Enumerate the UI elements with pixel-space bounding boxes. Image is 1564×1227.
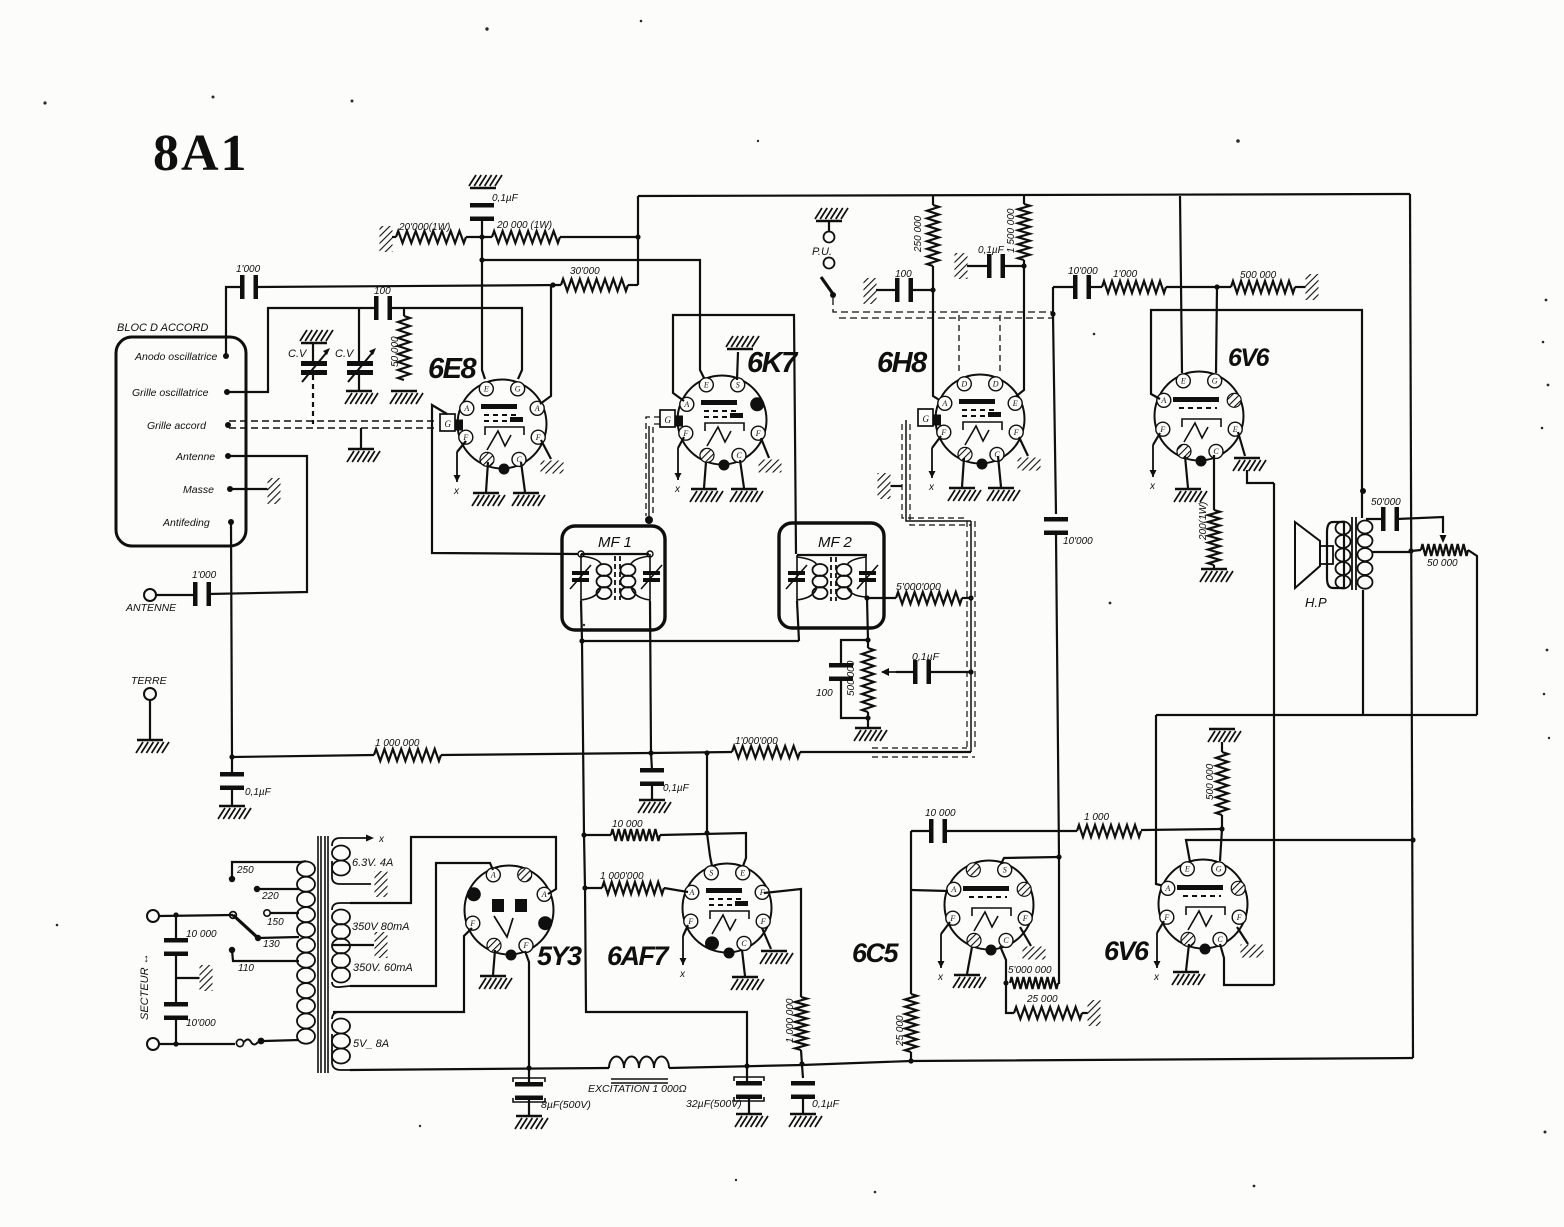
svg-text:S: S — [709, 869, 713, 878]
svg-text:1 000'000: 1 000'000 — [600, 871, 644, 882]
junction OT top — [1360, 488, 1366, 494]
MF1 right trimmer — [641, 565, 662, 589]
terminal secteur top — [147, 910, 159, 922]
MF2 left trimmer — [786, 565, 807, 589]
wire tap 220 — [257, 888, 299, 890]
svg-text:F: F — [940, 428, 946, 437]
wire wiper to 0.1uF — [896, 671, 915, 673]
svg-text:5'000 000: 5'000 000 — [1008, 965, 1052, 976]
svg-text:F: F — [1022, 914, 1028, 923]
svg-text:x: x — [674, 484, 681, 495]
wire secteur top — [159, 915, 233, 916]
ground 6K7 bottom left — [690, 489, 723, 502]
svg-text:5'000'000: 5'000'000 — [896, 581, 941, 593]
tube 6H8 V3 — [918, 375, 1025, 470]
wire grid node to grid pin — [1220, 829, 1222, 861]
svg-text:130: 130 — [263, 939, 280, 950]
svg-text:20 000 (1W): 20 000 (1W) — [496, 220, 552, 231]
capacitor 0.1uF (AF coupling) — [913, 660, 931, 684]
svg-text:5Y3: 5Y3 — [537, 941, 582, 971]
wire grille accord shield a — [229, 420, 438, 422]
junction 1M feed — [582, 885, 587, 890]
junction 6C5 grid tap — [1056, 854, 1061, 859]
svg-text:A: A — [463, 404, 469, 413]
wire R7 to grid node — [1166, 286, 1231, 288]
svg-text:32µF(500V): 32µF(500V) — [686, 1098, 742, 1110]
svg-text:x: x — [928, 482, 935, 493]
capacitor 100 (osc grid) — [374, 296, 392, 320]
svg-text:1'000'000: 1'000'000 — [735, 736, 778, 747]
power transformer primary winding — [232, 861, 315, 1044]
wire filter vertical — [175, 915, 177, 941]
svg-text:Grille oscillatrice: Grille oscillatrice — [132, 387, 209, 399]
svg-text:E: E — [1012, 399, 1018, 408]
junction MF1 grid entry — [645, 516, 653, 524]
wire MF2 primary return — [797, 601, 799, 641]
wire 6K7 F right ground — [761, 438, 769, 458]
resistor 1 000 000 R17 — [795, 997, 807, 1050]
ground below 50 000 — [390, 391, 423, 404]
wire 5V top to F left — [333, 928, 472, 1012]
wire to ground — [651, 786, 653, 799]
wire cap to ground — [231, 790, 233, 805]
tone pot wiper arrow — [1440, 535, 1447, 543]
resistor 5'000'000 R9 — [896, 592, 962, 604]
wire 6AF7 F left to arrow — [683, 925, 688, 936]
tap 110 dot — [229, 947, 235, 953]
wire long drop to 5Y3 area — [582, 641, 584, 835]
wire antenne terminal to cap — [156, 594, 195, 596]
tuner terminal dot Masse — [227, 486, 233, 492]
svg-text:A: A — [950, 885, 956, 894]
ground below 0.1uF bottom — [789, 1114, 822, 1127]
shield dash a — [966, 521, 968, 748]
chassis block 0.1uF 6H8 — [955, 253, 968, 279]
svg-text:G: G — [445, 419, 452, 429]
wire det to 10'000 cap — [1053, 286, 1075, 288]
svg-text:F: F — [1236, 913, 1242, 922]
ground below volume pot — [854, 728, 887, 741]
wire MF2 top link — [797, 554, 867, 556]
wire R1-R2 — [466, 236, 492, 238]
wire 6V6 cathode — [1213, 455, 1215, 510]
ground 6H8 bottom left — [948, 488, 981, 501]
wire coupling to 6C5 grid — [1056, 535, 1059, 984]
wire 10k to tube — [660, 833, 746, 866]
svg-text:F: F — [760, 917, 766, 926]
svg-text:P.U.: P.U. — [812, 246, 832, 258]
svg-text:1 500 000: 1 500 000 — [1006, 208, 1017, 253]
PU shielded pair a — [833, 298, 1053, 312]
OT secondary winding — [1358, 521, 1373, 589]
wire block to 100 cap — [876, 289, 897, 291]
wire 6E8 plate to node — [540, 285, 551, 404]
chassis patch 6E8 F right — [541, 461, 564, 474]
wire cap to divider junction — [481, 221, 483, 260]
tuner terminal dot Antenne — [225, 453, 231, 459]
MF2 left winding — [797, 555, 828, 601]
resistor 500 000 R14 — [1216, 752, 1228, 815]
wire 6K7 F left to arrow — [678, 437, 684, 448]
wire 0.1uF bottom ground — [802, 1099, 804, 1113]
svg-text:D: D — [992, 380, 999, 389]
svg-text:C: C — [736, 451, 742, 460]
capacitor 50'000 (tone) — [1381, 507, 1399, 531]
svg-text:C: C — [1213, 447, 1219, 456]
heater arrow x 6C5 — [937, 934, 945, 983]
junction pot bottom — [865, 715, 870, 720]
speaker voice coil — [1320, 546, 1333, 564]
wire 5M to shield line — [962, 597, 971, 599]
svg-text:A: A — [683, 400, 689, 409]
junction R21 bus — [908, 1058, 913, 1063]
junction plate/30k node — [550, 282, 555, 287]
variable capacitor C.V right — [347, 348, 376, 382]
MF1 left winding — [581, 554, 612, 601]
svg-text:10'000: 10'000 — [1068, 266, 1098, 277]
wire OT mid tap — [1372, 551, 1411, 553]
wire OT secondary top to 50'000 cap — [1366, 518, 1383, 520]
shield dash b — [974, 521, 976, 748]
svg-text:10 000: 10 000 — [612, 819, 643, 830]
wire 6E8 BL pin ground — [486, 462, 488, 492]
MF1 core — [615, 556, 620, 600]
ground 6K7 cathode — [730, 489, 763, 502]
ground 6E8 cathode — [512, 493, 545, 506]
wire screen 6V6 top — [1180, 196, 1182, 373]
heater arrow x 6H8 — [928, 448, 936, 493]
mains fuse dot — [258, 1038, 265, 1045]
ground 6AF7 F right — [760, 951, 793, 964]
resistor 50 000 tone pot R22 — [1421, 544, 1468, 556]
junction AVC / 6AF7 feed — [704, 750, 709, 755]
svg-text:0,1µF: 0,1µF — [492, 193, 519, 204]
resistor 1 000 000 R16 — [602, 882, 664, 894]
resistor 20'000(1W) R1 — [396, 231, 466, 243]
wire antenne from tuner — [208, 456, 307, 594]
IF transformer MF2 box — [779, 523, 884, 628]
svg-text:A: A — [1164, 884, 1170, 893]
tube 6V6 V8 — [1159, 860, 1248, 955]
svg-text:F: F — [949, 914, 955, 923]
MF2 right winding — [837, 555, 867, 599]
ground above R14 — [1208, 729, 1241, 742]
resistor 1'000'000 AVC R12 — [732, 746, 800, 758]
tuner box BLOC D ACCORD — [116, 337, 246, 546]
svg-text:F: F — [1163, 913, 1169, 922]
heater arrow x 6K7 — [674, 448, 682, 495]
svg-text:250: 250 — [236, 865, 254, 876]
wire cap to pot wiper arrow — [1397, 517, 1443, 533]
wire grid node down — [1216, 287, 1217, 373]
IF transformer MF1 box — [562, 526, 665, 630]
svg-text:A: A — [534, 404, 540, 413]
svg-text:6V6: 6V6 — [1228, 344, 1271, 372]
svg-text:x: x — [453, 486, 460, 497]
heater arrow x 6V6 bottom — [1153, 933, 1161, 983]
junction MF2 secondary bottom — [864, 595, 869, 600]
svg-text:F: F — [523, 941, 529, 950]
wire 100 cap branch bottom — [841, 681, 868, 718]
mains fuse squiggle — [244, 1040, 258, 1045]
ground 6C5 BL — [953, 975, 986, 988]
wire detector output — [1053, 287, 1056, 514]
svg-text:100: 100 — [374, 286, 391, 297]
wire screen feed 6E8 — [482, 260, 485, 379]
capacitor 100 (6H8 grid) — [895, 278, 913, 302]
wire tap 150 — [270, 912, 299, 914]
wire cathode bus vertical — [1273, 483, 1275, 985]
wire R13 to ground — [1213, 565, 1215, 568]
6H8 shield dash b — [910, 424, 971, 525]
svg-text:8µF(500V): 8µF(500V) — [541, 1099, 591, 1111]
wire 6E8 F left to arrow — [457, 441, 466, 452]
capacitor 10'000 (6V6 grid) — [1073, 275, 1091, 299]
svg-text:ANTENNE: ANTENNE — [125, 602, 177, 614]
svg-text:C.V: C.V — [335, 348, 355, 360]
wire tap 250 — [232, 862, 299, 879]
wire grille accord shield b — [229, 427, 438, 429]
wire 6V6 bottom plate riser — [1156, 715, 1164, 886]
svg-text:0,1µF: 0,1µF — [912, 651, 940, 663]
speaker cone H.P — [1295, 522, 1320, 588]
diode plate lead 2 dashed — [999, 315, 1001, 373]
ground 6V6 top MR — [1233, 458, 1266, 471]
ground below 8uF — [515, 1116, 548, 1129]
tap 250 dot — [229, 876, 235, 882]
wire R5 to 6H8 grid — [933, 266, 941, 401]
wire R2 to riser — [560, 236, 638, 238]
wire tap 110 — [232, 950, 299, 961]
tap 150 circle — [264, 910, 270, 916]
ground 5Y3 BL — [479, 976, 512, 989]
wire drop continue — [584, 835, 585, 888]
wire osc grid to tube — [390, 308, 522, 379]
wire MF1 return bypass stem — [651, 753, 652, 770]
svg-text:H.P: H.P — [1305, 595, 1327, 610]
wire 6V6b F right ground — [1237, 927, 1248, 944]
junction 32uF on bus — [744, 1063, 749, 1068]
wire B- line MF1-MF2 — [582, 640, 799, 642]
secondary 350V winding — [332, 903, 411, 987]
wire MF2 bottom to pot — [867, 598, 868, 648]
svg-text:C: C — [1003, 936, 1009, 945]
wire 6AF7 F right ground — [762, 928, 771, 949]
tube 6V6 V4 — [1155, 372, 1244, 467]
svg-text:F: F — [535, 433, 541, 442]
wire 6H8 BL ground — [962, 458, 964, 487]
OT primary winding — [1336, 522, 1351, 589]
MF1 right winding — [621, 554, 651, 601]
8uF cap brackets — [513, 1078, 545, 1102]
wire osc anode to plate node — [256, 285, 561, 287]
chassis block 6.3V — [375, 871, 388, 897]
wire 6V6b cathode — [1220, 944, 1274, 985]
wire grid tap 6C5 — [1001, 857, 1059, 864]
wire CV1 top stem — [312, 343, 314, 361]
wire 6E8 cathode ground — [521, 462, 525, 492]
mains selector pivot — [230, 912, 237, 919]
pot wiper arrow — [881, 668, 896, 676]
wire R6 to 6H8 plate — [1014, 260, 1024, 398]
svg-text:30'000: 30'000 — [570, 266, 600, 277]
junction MF1 return — [579, 638, 584, 643]
svg-text:0,1µF: 0,1µF — [663, 783, 690, 794]
junction screen node — [479, 257, 484, 262]
wire 6AF7 cathode ground — [742, 950, 745, 976]
capacitor 100 (volume) — [829, 663, 853, 681]
svg-text:0,1µF: 0,1µF — [978, 245, 1005, 256]
svg-text:25 000: 25 000 — [895, 1015, 906, 1047]
wire shield conductor — [970, 521, 972, 752]
junction PU blade — [830, 292, 836, 298]
svg-text:500 000: 500 000 — [1240, 270, 1277, 281]
wire 6K7 grid shield b — [653, 424, 660, 516]
diode plate lead 1 dashed — [958, 315, 960, 373]
junction 6V6b grid node — [1219, 826, 1224, 831]
wire 6V6t F left to arrow — [1153, 433, 1160, 445]
junction shield/5M — [968, 595, 973, 600]
resistor 30'000 R3 — [561, 279, 628, 291]
svg-text:SECTEUR ↔: SECTEUR ↔ — [139, 953, 151, 1020]
wire HT top to plate A right — [350, 837, 556, 903]
wire HT bottom to plate A left — [350, 863, 493, 986]
AVC shield dash a — [872, 747, 967, 749]
svg-text:G: G — [1212, 377, 1218, 386]
svg-text:E: E — [703, 381, 709, 390]
svg-text:350V 80mA: 350V 80mA — [352, 921, 409, 933]
ground above 0.1uF top cap — [469, 175, 502, 188]
capacitor 10'000 (AF coupling) — [1044, 517, 1068, 535]
capacitor 1'000 (antenna) — [193, 582, 211, 606]
MF1 pin top-right — [647, 551, 653, 557]
svg-text:x: x — [1153, 972, 1160, 983]
wire 6C5 BL ground — [967, 947, 972, 974]
junction cathode/5M — [1003, 980, 1008, 985]
wire 6K7 grid lead — [648, 426, 650, 524]
tap 130 dot — [255, 935, 261, 941]
junction plate riser — [1021, 263, 1026, 268]
resistor 25 000 R20 — [1014, 1007, 1082, 1019]
ground above 6K7 suppressor — [726, 336, 759, 349]
wire bottom bus left — [350, 1068, 609, 1070]
wire OT bottom down — [1362, 590, 1364, 715]
ground 6V6b BL — [1172, 972, 1205, 985]
heater arrow x 6E8 — [453, 452, 461, 497]
terminal ANTENNE — [144, 589, 156, 601]
tube 6E8 V1 — [440, 380, 547, 475]
wire 6C5 F left to arrow — [941, 922, 950, 934]
svg-text:220: 220 — [261, 891, 279, 902]
svg-text:25 000: 25 000 — [1026, 994, 1058, 1005]
wire shield ground stem — [890, 485, 902, 487]
wire pot right down — [1468, 550, 1477, 715]
ground below accord line — [347, 449, 380, 462]
capacitor 0.1uF (MF1 return) — [640, 768, 664, 786]
ground 6H8 cathode — [987, 488, 1020, 501]
resistor 500 000 R8 — [1231, 281, 1295, 293]
wire R14 to grid node — [1221, 815, 1223, 829]
wire R19 right to grid line — [1058, 982, 1059, 984]
MF1 left trimmer — [570, 565, 591, 589]
resistor 50 000 vertical R4 — [398, 316, 410, 380]
svg-text:Antenne: Antenne — [175, 451, 215, 463]
svg-text:x: x — [378, 834, 385, 845]
capacitor 1'000 (osc anode) — [240, 275, 258, 299]
ground below R13 — [1200, 569, 1233, 582]
ground 6E8 bottom left — [472, 493, 505, 506]
svg-text:E: E — [483, 385, 489, 394]
resistor 250 000 R5 — [927, 205, 939, 266]
wire R20 to block — [1082, 1012, 1088, 1014]
wire 5Y3 cathode to bus — [525, 951, 529, 1085]
MF2 core — [831, 557, 836, 601]
wire AVC bus mid2 — [651, 752, 732, 753]
tap 220 dot — [254, 886, 260, 892]
ground below right CV — [345, 391, 378, 404]
tuner terminal dot Grille oscillatrice — [224, 389, 230, 395]
junction AVC left — [229, 754, 234, 759]
svg-text:10'000: 10'000 — [186, 1018, 216, 1029]
tube 6AF7 V6 — [683, 864, 772, 959]
capacitor 0.1uF (antifading) — [220, 772, 244, 790]
chassis block mains filter — [200, 965, 213, 991]
resistor 1 000 000 AVC R11 — [374, 749, 441, 761]
svg-text:100: 100 — [816, 688, 833, 699]
wire 6K7 suppressor stem — [737, 352, 738, 380]
svg-text:A: A — [1160, 396, 1166, 405]
svg-text:BLOC D ACCORD: BLOC D ACCORD — [117, 322, 208, 334]
wire 5Y3 BL ground — [493, 950, 495, 975]
wire gnd to R14 — [1221, 742, 1223, 752]
svg-text:1 000 000: 1 000 000 — [375, 738, 420, 749]
tube 5Y3 V5 — [465, 866, 554, 961]
svg-text:S: S — [736, 381, 740, 390]
terminal TERRE — [144, 688, 156, 700]
junction pot/B+ vertical — [1408, 548, 1413, 553]
svg-text:1 000 000: 1 000 000 — [785, 998, 796, 1043]
wire plate feed bus y=715 — [1156, 714, 1477, 716]
wire 6V6 BL ground — [1185, 456, 1188, 488]
wire R21 to bus — [910, 1052, 912, 1062]
wire top B+ bus — [638, 194, 1410, 196]
wire block to cap — [967, 265, 989, 267]
junction R17 bus — [799, 1061, 804, 1066]
wire cap to R7 — [1089, 286, 1102, 288]
wire 1M to grid — [664, 888, 688, 892]
ground 6AF7 cathode — [731, 977, 764, 990]
secondary 5V winding — [332, 1012, 350, 1070]
wire 100 cap to grid riser — [911, 289, 933, 291]
choke EXCITATION — [609, 1057, 669, 1084]
svg-text:EXCITATION 1 000Ω: EXCITATION 1 000Ω — [588, 1083, 687, 1095]
svg-text:1'000: 1'000 — [1113, 269, 1138, 280]
wire terre — [149, 700, 151, 739]
svg-text:E: E — [739, 869, 745, 878]
resistor 5'000 000 R19 — [1010, 977, 1058, 989]
junction 6V6 grid node — [1214, 284, 1219, 289]
ground 6V6 top BL — [1174, 489, 1207, 502]
wire filter mid — [175, 956, 177, 1005]
svg-text:Antifeding: Antifeding — [162, 517, 210, 529]
chassis block left of R 20000 — [380, 226, 393, 252]
wire pot left to B+ line — [1411, 550, 1421, 551]
wire 10k left stub — [586, 834, 611, 836]
svg-text:6H8: 6H8 — [877, 347, 928, 379]
svg-text:F: F — [469, 919, 475, 928]
ground below MF1 bypass — [638, 800, 671, 813]
capacitor 32uF(500V) — [736, 1081, 762, 1099]
